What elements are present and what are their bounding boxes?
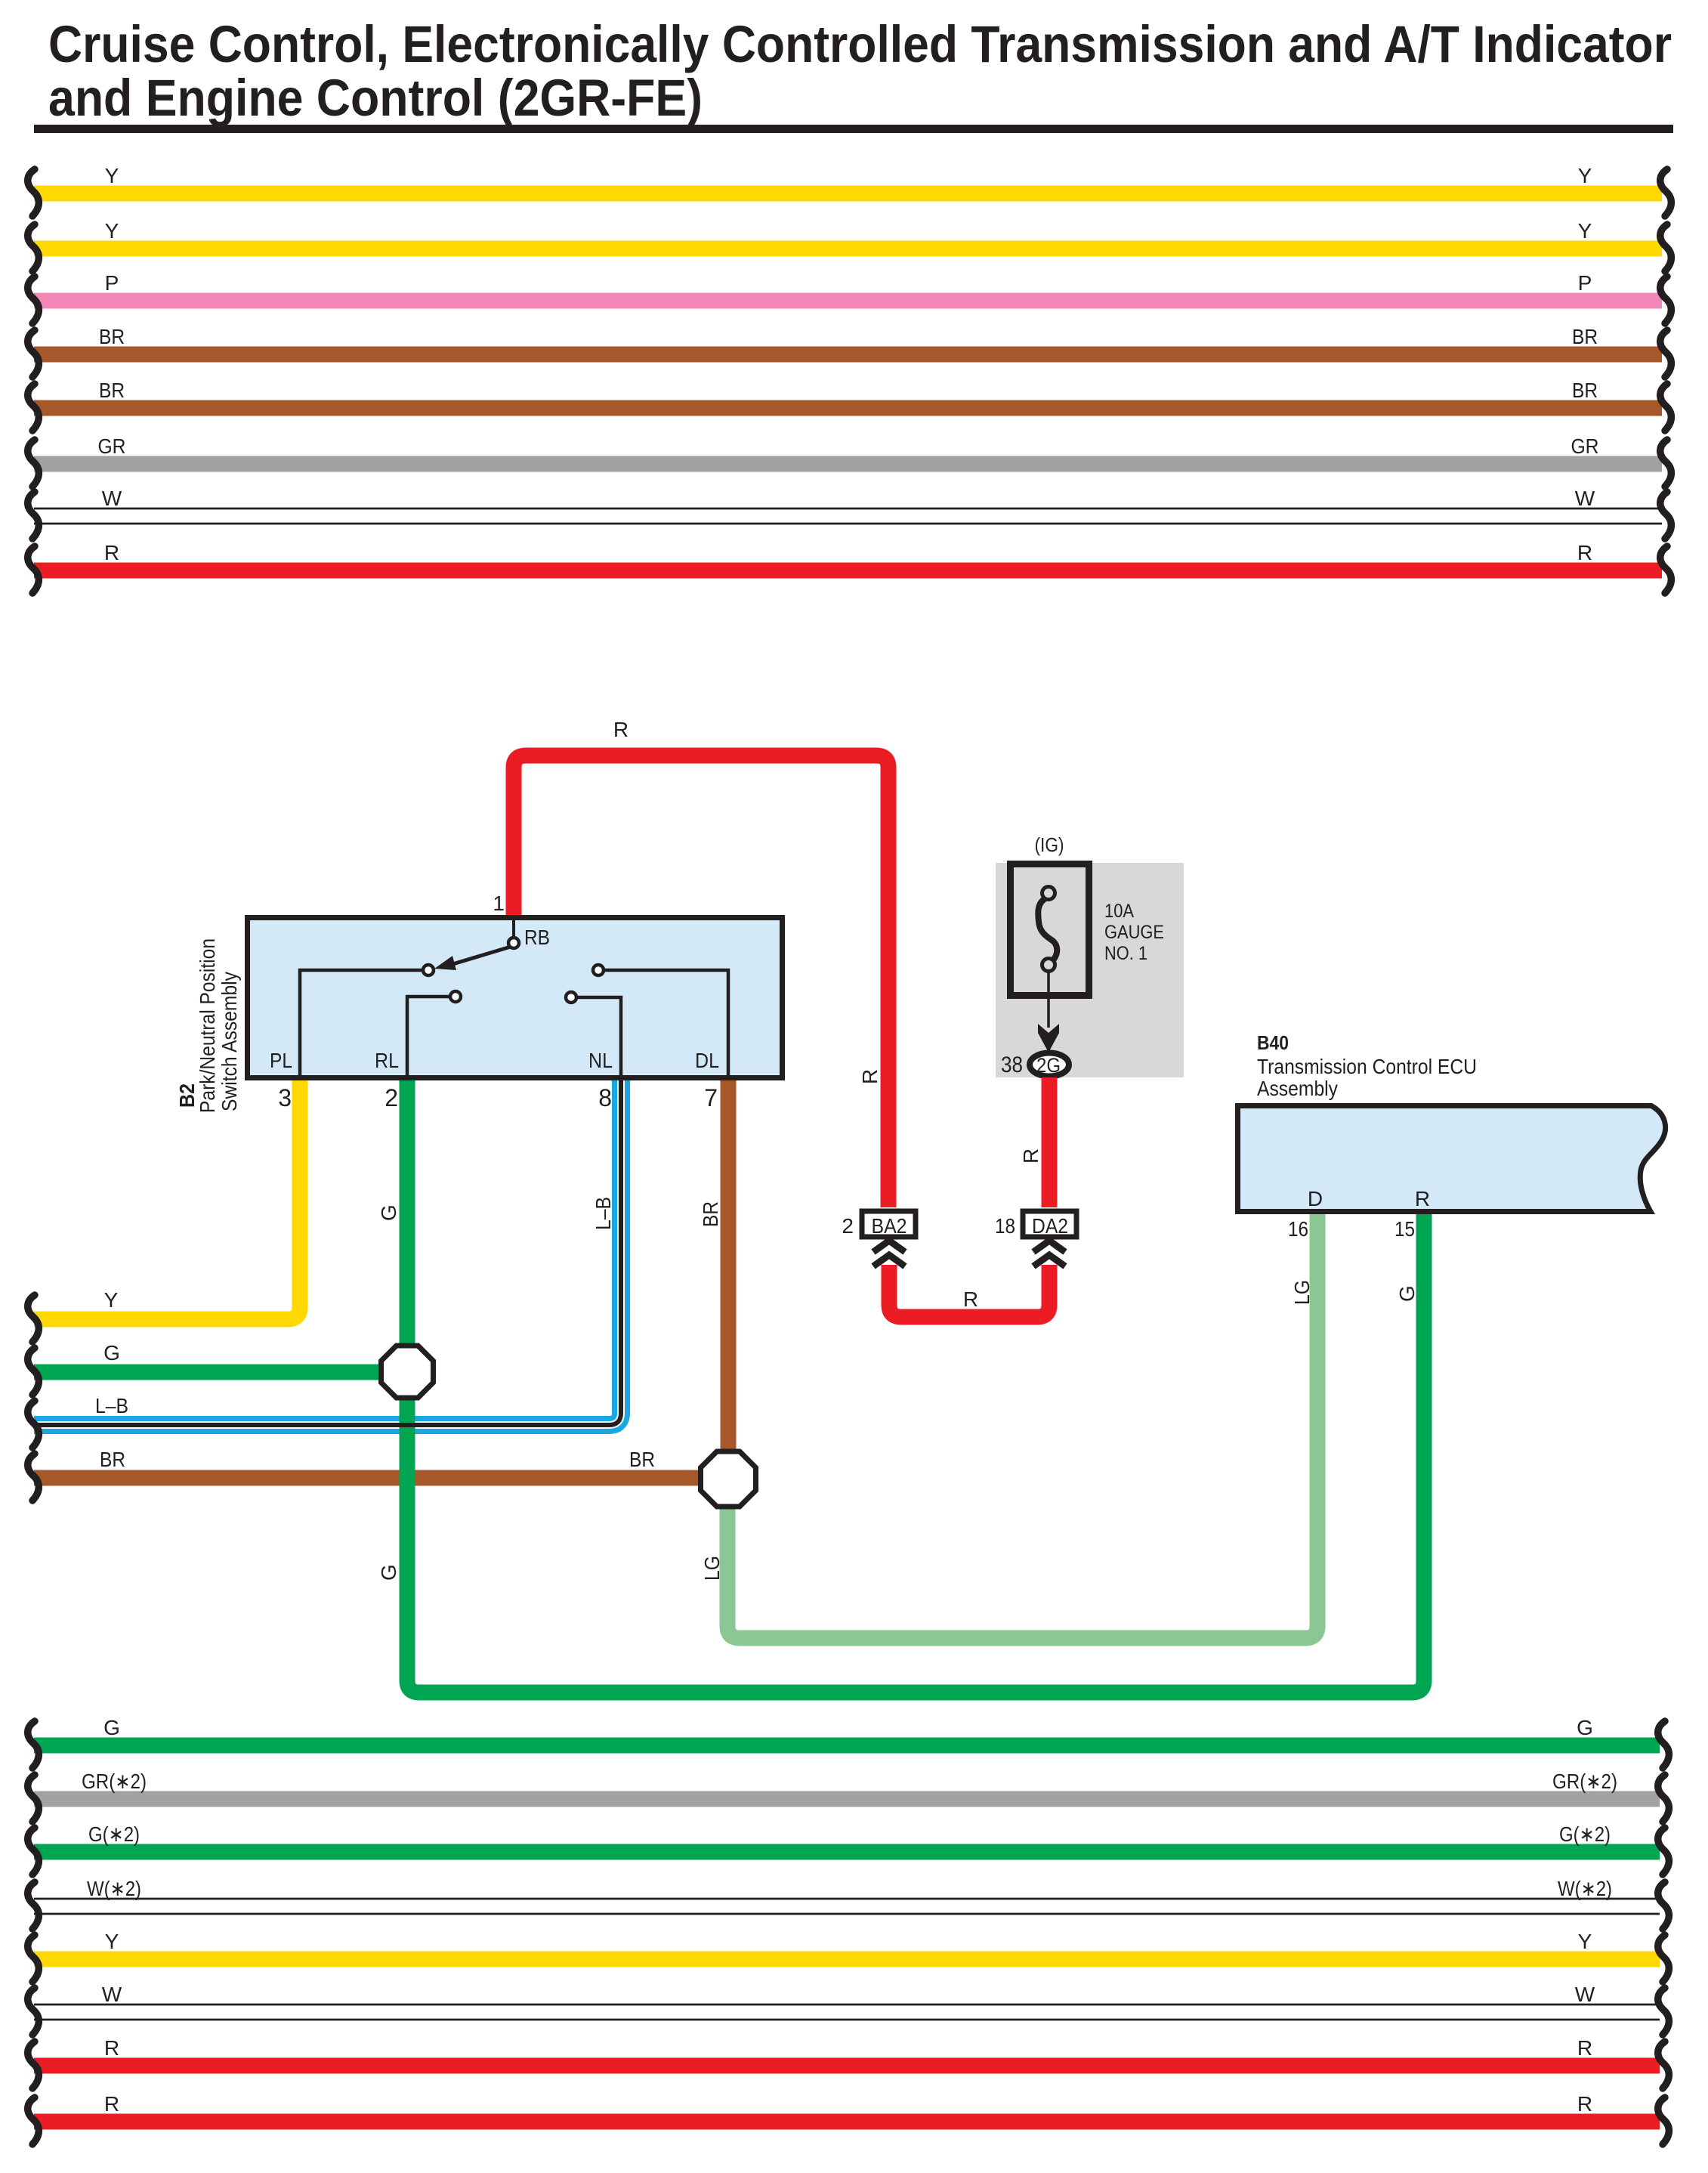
- svg-text:3: 3: [278, 1084, 292, 1111]
- wire bot-7 (R): [34, 2058, 1660, 2074]
- wire-break squiggle bot-6 right: [1658, 1988, 1669, 2035]
- wire LG from junction J2 to B40 pin 16: [727, 1214, 1317, 1638]
- wire L-B from B2 pin 8 to left break (blue layer): [34, 1080, 621, 1425]
- wire-break squiggle bot-1 right: [1658, 1721, 1669, 1768]
- wire BR from B2 pin 7 down to junction J2: [721, 1080, 737, 1478]
- svg-text:B40: B40: [1257, 1031, 1289, 1054]
- junction node J1 (octagon): [381, 1346, 434, 1398]
- wire-break squiggle bot-1 left: [28, 1721, 39, 1768]
- wire-break squiggle top-6 right: [1660, 440, 1672, 487]
- svg-text:Y: Y: [105, 164, 119, 187]
- svg-text:R: R: [1577, 541, 1592, 564]
- svg-text:R: R: [1577, 2092, 1592, 2116]
- wire-break squiggle top-3 left: [28, 277, 39, 323]
- svg-text:Park/Neutral Position: Park/Neutral Position: [196, 938, 219, 1113]
- svg-text:R: R: [1415, 1187, 1430, 1210]
- wire G from left break to junction J1: [34, 1365, 407, 1380]
- connector DA2: [1023, 1211, 1076, 1237]
- wire BR from left break to junction J2: [34, 1470, 728, 1486]
- wire-break squiggle top-6 left: [28, 440, 39, 487]
- svg-text:BA2: BA2: [872, 1214, 907, 1238]
- svg-text:G: G: [103, 1716, 120, 1739]
- wire bot-6 (W): [34, 2005, 1660, 2020]
- fuse terminal circle top: [1042, 887, 1055, 900]
- svg-text:G: G: [1577, 1716, 1593, 1739]
- svg-text:Y: Y: [1578, 164, 1592, 187]
- svg-text:R: R: [613, 718, 629, 741]
- wire-break squiggle top-8 right: [1660, 546, 1672, 593]
- svg-text:G: G: [1395, 1285, 1419, 1302]
- wire bot-3 (G(∗2)): [34, 1844, 1660, 1860]
- wire-break squiggle bot-7 right: [1658, 2042, 1669, 2088]
- svg-text:R: R: [104, 2092, 119, 2116]
- svg-text:BR: BR: [1572, 379, 1598, 402]
- wire G from B2 pin 2 through J1 to B40 pin 15: [407, 1080, 1424, 1692]
- wire-break squiggle top-2 left: [28, 224, 39, 271]
- svg-text:BR: BR: [699, 1201, 722, 1227]
- svg-text:L–B: L–B: [95, 1394, 128, 1417]
- svg-text:P: P: [105, 271, 119, 295]
- wire top-1 (Y): [34, 186, 1662, 202]
- svg-text:BR: BR: [1572, 325, 1598, 348]
- wire-break squiggle bot-3 right: [1658, 1828, 1669, 1875]
- svg-text:R: R: [858, 1069, 882, 1084]
- contact RL: circle and lead to pin 2: [407, 997, 449, 1077]
- wire top-8 (R): [34, 563, 1662, 579]
- svg-text:NO. 1: NO. 1: [1104, 943, 1147, 964]
- svg-text:Y: Y: [1578, 1930, 1592, 1953]
- svg-text:15: 15: [1395, 1217, 1415, 1241]
- wire-break squiggle top-3 right: [1660, 277, 1672, 323]
- svg-text:10A: 10A: [1104, 901, 1134, 922]
- node 2G oval: [1030, 1053, 1069, 1077]
- connector chevrons below BA2: [873, 1241, 905, 1252]
- svg-text:R: R: [1577, 2036, 1592, 2060]
- component B40 Transmission Control ECU Assembly box: [1238, 1106, 1666, 1212]
- wire-break squiggle bot-5 right: [1658, 1935, 1669, 1982]
- wire-break squiggle G mid-left: [28, 1348, 39, 1395]
- wire top-2 (Y): [34, 241, 1662, 257]
- wire-break squiggle top-5 right: [1660, 384, 1672, 431]
- wire R linking BA2 to DA2 (lower U): [889, 1265, 1049, 1317]
- svg-text:38: 38: [1001, 1052, 1023, 1077]
- fuse element S-curve: [1038, 898, 1057, 961]
- svg-text:LG: LG: [1290, 1280, 1314, 1305]
- arrowhead into 2G node: [1038, 1024, 1059, 1052]
- connector BA2: [862, 1211, 916, 1237]
- wire-break squiggle L-B mid-left: [28, 1401, 39, 1448]
- wire L-B black stripe: [34, 1080, 621, 1425]
- gray block (instrument panel area) around fuse: [996, 863, 1184, 1077]
- svg-text:DA2: DA2: [1032, 1214, 1068, 1238]
- wire top-4 (BR): [34, 347, 1662, 363]
- component B2 Park/Neutral Position Switch Assembly box: [248, 918, 783, 1078]
- wire from fuse to 2G node: [1047, 971, 1050, 1028]
- wire-break squiggle bot-2 left: [28, 1775, 39, 1822]
- svg-text:W: W: [102, 1983, 122, 2006]
- wire-break squiggle bot-2 right: [1658, 1775, 1669, 1822]
- svg-text:BR: BR: [99, 379, 125, 402]
- svg-text:RL: RL: [375, 1049, 399, 1072]
- svg-text:LG: LG: [700, 1556, 724, 1581]
- svg-text:GR: GR: [1571, 434, 1599, 458]
- svg-text:Cruise Control, Electronically: Cruise Control, Electronically Controlle…: [48, 15, 1672, 73]
- svg-text:G: G: [377, 1564, 400, 1581]
- wire top-5 (BR): [34, 400, 1662, 416]
- svg-text:1: 1: [493, 892, 505, 915]
- svg-text:Y: Y: [105, 219, 119, 243]
- wire-break squiggle top-4 left: [28, 330, 39, 377]
- wire-break squiggle top-1 left: [28, 169, 39, 216]
- wire-break squiggle top-8 left: [28, 546, 39, 593]
- svg-text:2: 2: [842, 1214, 854, 1238]
- wire-break squiggle bot-3 left: [28, 1828, 39, 1875]
- svg-text:Y: Y: [104, 1288, 119, 1312]
- wire-break squiggle top-7 left: [28, 492, 39, 539]
- wire-break squiggle bot-8 right: [1658, 2097, 1669, 2144]
- svg-text:G: G: [103, 1341, 120, 1365]
- wire-break squiggle bot-4 left: [28, 1882, 39, 1929]
- junction node J2 (octagon): [701, 1451, 756, 1507]
- svg-text:R: R: [104, 2036, 119, 2060]
- svg-text:W: W: [102, 487, 122, 510]
- svg-text:and Engine Control (2GR-FE): and Engine Control (2GR-FE): [48, 69, 703, 127]
- wire top-6 (GR): [34, 456, 1662, 472]
- wire bot-5 (Y): [34, 1952, 1660, 1967]
- switch common stub and RB node: [512, 917, 515, 938]
- svg-text:7: 7: [704, 1084, 718, 1111]
- wire-break squiggle bot-6 left: [28, 1988, 39, 2035]
- svg-text:DL: DL: [695, 1049, 719, 1072]
- wire-break squiggle Y mid-left: [28, 1295, 39, 1342]
- wire-break squiggle bot-5 left: [28, 1935, 39, 1982]
- wire-break squiggle top-5 left: [28, 384, 39, 431]
- svg-text:8: 8: [598, 1084, 612, 1111]
- svg-text:W(∗2): W(∗2): [87, 1877, 141, 1900]
- svg-text:GR(∗2): GR(∗2): [1552, 1770, 1617, 1793]
- connector chevrons below DA2: [1033, 1241, 1065, 1252]
- svg-text:BR: BR: [629, 1448, 655, 1471]
- svg-text:Y: Y: [1578, 219, 1592, 243]
- wire-break squiggle bot-4 right: [1658, 1882, 1669, 1929]
- svg-text:(IG): (IG): [1035, 833, 1064, 856]
- svg-text:Transmission Control ECU: Transmission Control ECU: [1257, 1055, 1477, 1078]
- contact PL: circle and lead to pin 3: [300, 970, 422, 1077]
- svg-text:W: W: [1575, 1983, 1595, 2006]
- svg-text:NL: NL: [588, 1049, 613, 1072]
- wire-break squiggle BR mid-left: [28, 1454, 39, 1501]
- svg-text:G(∗2): G(∗2): [88, 1822, 140, 1846]
- contact DL: circle and lead to pin 7: [604, 970, 728, 1077]
- svg-text:Y: Y: [105, 1930, 119, 1953]
- svg-text:BR: BR: [99, 325, 125, 348]
- svg-text:W(∗2): W(∗2): [1558, 1877, 1612, 1900]
- svg-text:W: W: [1575, 487, 1595, 510]
- svg-text:G: G: [377, 1204, 400, 1221]
- wire bot-1 (G): [34, 1738, 1660, 1754]
- fuse F 10A GAUGE NO. 1 box: [1011, 864, 1089, 996]
- wire R from 2G to connector DA2: [1042, 1077, 1058, 1207]
- title underline: [34, 125, 1673, 133]
- wire-break squiggle top-2 right: [1660, 224, 1672, 271]
- wire top-7 (W): [34, 508, 1662, 524]
- svg-text:Assembly: Assembly: [1257, 1077, 1338, 1100]
- svg-text:2G: 2G: [1036, 1054, 1061, 1077]
- svg-text:G(∗2): G(∗2): [1559, 1822, 1611, 1846]
- svg-text:D: D: [1308, 1187, 1323, 1210]
- svg-text:16: 16: [1288, 1217, 1308, 1241]
- wire bot-4 (W(∗2)): [34, 1899, 1660, 1915]
- svg-text:BR: BR: [100, 1448, 125, 1471]
- svg-text:L–B: L–B: [591, 1197, 615, 1230]
- svg-text:18: 18: [995, 1214, 1015, 1238]
- switch arm from RB: [450, 947, 511, 965]
- wire-break squiggle bot-8 left: [28, 2097, 39, 2144]
- fuse terminal circle bottom: [1042, 959, 1055, 972]
- wire bot-8 (R): [34, 2114, 1660, 2130]
- wire bot-2 (GR(∗2)): [34, 1791, 1660, 1807]
- svg-text:Switch Assembly: Switch Assembly: [218, 972, 241, 1111]
- svg-text:R: R: [963, 1287, 978, 1311]
- svg-text:GAUGE: GAUGE: [1104, 922, 1164, 943]
- svg-text:R: R: [1019, 1148, 1042, 1164]
- wire-break squiggle bot-7 left: [28, 2042, 39, 2088]
- svg-text:PL: PL: [270, 1049, 292, 1072]
- contact NL: circle and lead to pin 8: [577, 997, 621, 1077]
- wire Y from B2 pin 3 to left break: [34, 1080, 300, 1319]
- wire-break squiggle top-7 right: [1660, 492, 1672, 539]
- svg-text:RB: RB: [524, 926, 550, 949]
- svg-text:R: R: [104, 541, 119, 564]
- svg-text:GR(∗2): GR(∗2): [82, 1770, 147, 1793]
- svg-text:GR: GR: [98, 434, 126, 458]
- svg-text:P: P: [1578, 271, 1592, 295]
- wire-break squiggle top-4 right: [1660, 330, 1672, 377]
- wire R from B2 pin 1 to connector BA2: [514, 756, 888, 1207]
- wire-break squiggle top-1 right: [1660, 169, 1672, 216]
- wire top-3 (P): [34, 293, 1662, 309]
- svg-text:2: 2: [385, 1084, 398, 1111]
